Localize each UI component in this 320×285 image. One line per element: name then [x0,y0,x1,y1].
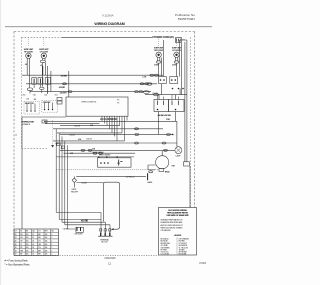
splice on wire [143,91,149,94]
svg-text:5995575481: 5995575481 [178,17,195,21]
svg-text:12: 12 [32,234,34,236]
svg-text:NC NONE: NC NONE [179,254,188,256]
svg-text:#10 BK: #10 BK [63,228,69,230]
svg-text:#16 OR: #16 OR [74,125,81,127]
svg-text:18: 18 [32,250,34,252]
svg-text:YL: YL [20,244,22,246]
svg-text:USE WIRE OF SAME SIZE: USE WIRE OF SAME SIZE [166,214,189,217]
bus wire N1 [22,74,163,76]
svg-text:105: 105 [45,244,48,246]
selector switch box [24,101,40,114]
svg-text:#16 R: #16 R [154,65,159,67]
arrow into terminal [111,228,114,230]
bake element wire [74,173,153,184]
bus wire N3 [30,91,151,93]
svg-text:BLOCK: BLOCK [102,242,109,244]
outer dashed frame [14,32,195,256]
surface unit SU4 label [172,48,182,52]
svg-text:GROUND: GROUND [74,233,83,235]
svg-text:RECEPT: RECEPT [71,192,79,194]
bottom dashed border [14,254,197,256]
receptacle wire label [77,183,104,185]
svg-text:105: 105 [45,234,48,236]
svg-text:11: 11 [108,262,111,266]
surface unit SU3 [156,52,161,57]
latch switch box [98,158,132,167]
thermostat label [21,120,47,126]
svg-text:105: 105 [26,241,29,243]
svg-text:REPLACEMENT PARTS: REPLACEMENT PARTS [167,212,188,215]
bus wire N2 [26,83,157,85]
svg-text:LEGEND: LEGEND [174,235,182,237]
oven switch box [42,100,58,112]
wire motor left [148,165,156,173]
svg-text:105: 105 [32,231,35,233]
console link wire [22,116,66,118]
ladder wire W7 [53,141,125,145]
svg-text:18: 18 [32,247,34,249]
feed to oven light [159,112,177,147]
surface unit SU3 label [154,48,164,52]
console top wire [62,36,152,38]
svg-text:LAMP: LAMP [176,154,182,157]
svg-text:#12 RD ==: #12 RD == [126,177,136,179]
surface unit SU2 label [39,49,49,53]
svg-text:16: 16 [15,244,17,246]
left drop bundle [56,129,67,229]
svg-text:18: 18 [20,231,22,233]
code legend box [159,208,197,256]
svg-text:WIRING DIAGRAM: WIRING DIAGRAM [94,22,124,26]
feed stubs from console top [28,37,176,46]
surface unit SU2 [41,53,46,58]
switch contact S2b [45,78,50,85]
ladder wire W2 [47,122,100,124]
svg-text:A1 CLOCK/EOC: A1 CLOCK/EOC [100,117,118,121]
bundle clip B [61,146,64,149]
limiter contact SU3 [156,61,161,63]
page edge shade [0,0,1,285]
svg-text:10: 10 [15,254,17,256]
connector drop wire [50,71,52,92]
wires SU1 SU2 down [27,58,47,94]
infinite switch S2 [38,78,43,85]
splice oval right N2 [147,83,152,85]
wire L1 right side [181,40,187,162]
svg-text:#12 BK: #12 BK [81,183,87,185]
svg-text:HIGHER AS SPECIFIED AND: HIGHER AS SPECIFIED AND [161,221,184,224]
surface unit SU1 label [24,49,34,53]
connector P6 [57,101,62,104]
svg-text:SWITCH ASM: SWITCH ASM [99,153,111,156]
oven control board U1 [66,97,128,116]
svg-text:RR 1500W: RR 1500W [154,50,163,52]
drop wire to control [68,71,70,97]
limiter contact SU4 [174,61,179,63]
ladder wire W10 [64,152,136,154]
bundle clip A [57,143,60,146]
label row blobs [22,95,58,102]
ladder wire W5 [57,133,122,136]
svg-text:#10 WH: #10 WH [60,92,67,94]
relay pin stubs [158,95,179,100]
svg-text:P3: P3 [117,100,119,102]
svg-text:BAKE: BAKE [148,181,154,184]
svg-text:#14 RD: #14 RD [152,93,159,95]
svg-text:K115MA: K115MA [102,14,113,18]
svg-text:OVEN CONTROL: OVEN CONTROL [81,101,97,103]
svg-text:#16 GY: #16 GY [86,139,93,141]
broil element wire [56,169,170,174]
wire color table [14,229,59,256]
svg-text:P4: P4 [117,103,119,105]
svg-text:K003: K003 [199,261,206,265]
oven cavity loop [104,182,120,229]
ladder wire W9 [60,149,175,151]
svg-text:16: 16 [32,244,34,246]
ladder wire W8 [57,142,177,144]
surface unit SU1 [26,53,31,58]
svg-text:#10 BK: #10 BK [61,75,68,77]
infinite switch S3 [159,77,167,84]
svg-text:# POWER CORD (2C): # POWER CORD (2C) [152,36,174,39]
junction dots under switches [172,88,184,90]
svg-text:WIRE 105C MIN SZ #18 AWG: WIRE 105C MIN SZ #18 AWG [161,226,184,229]
splice oval A1 [27,88,33,91]
oven light DS1 [175,147,182,158]
svg-text:#36 BK #36 WH: #36 BK #36 WH [158,115,172,117]
svg-text:105: 105 [45,250,48,252]
relay box K1 [154,100,169,112]
ladder wire W3 [60,125,120,127]
surface unit SU4 [174,52,179,57]
sense line arrowhead [51,145,54,148]
svg-text:105: 105 [26,247,29,249]
svg-text:105: 105 [45,241,48,243]
svg-text:105: 105 [26,244,29,246]
dashed sense line [52,120,54,146]
svg-text:OR LARGER: OR LARGER [161,229,172,232]
svg-text:18: 18 [15,247,17,249]
table cell text [15,231,54,256]
convection motor B1 [156,151,176,169]
wires SU3 SU4 down [157,40,179,77]
ground connector G1 [74,227,83,235]
svg-text:105: 105 [45,254,48,256]
title rule [5,26,212,28]
svg-text:105: 105 [45,247,48,249]
svg-text:105: 105 [26,254,29,256]
svg-text:16: 16 [15,241,17,243]
relay box K2 [169,100,185,112]
switch stub wires [30,84,48,93]
svg-text:105: 105 [51,231,54,233]
svg-text:105: 105 [26,234,29,236]
svg-text:OVEN SW: OVEN SW [43,102,51,104]
svg-text:105: 105 [26,237,29,239]
nested corner wires to terminal [56,213,110,233]
svg-text:SIZE AND TEMP RATING OR: SIZE AND TEMP RATING OR [161,219,184,222]
svg-text:SURFACE: SURFACE [22,123,31,126]
inner console dashed border [22,37,191,207]
svg-text:219C2915: 219C2915 [104,256,116,260]
wire receptacle symbol [71,178,79,194]
ladder wire W1 [46,120,177,122]
svg-text:CT COUNT: CT COUNT [161,254,171,256]
svg-text:105: 105 [45,237,48,239]
svg-text:#10 RD: #10 RD [59,87,66,89]
svg-text:12: 12 [15,234,17,236]
svg-text:* = Non Illustrated Parts: * = Non Illustrated Parts [5,262,31,266]
left feed wire to table [21,117,23,229]
svg-text:10: 10 [32,254,34,256]
connector P5 [57,98,62,101]
svg-text:14: 14 [32,237,34,239]
terminal block TB1 [98,229,112,244]
svg-text:14: 14 [15,237,17,239]
infinite switch S1 [32,78,37,85]
limiter contact SU2 [40,60,45,63]
right feed connector [184,162,191,208]
svg-text:SELECTOR: SELECTOR [25,103,34,105]
svg-text:#10 RD: #10 RD [81,219,88,222]
svg-text:16: 16 [32,241,34,243]
ladder wire W6 [60,133,174,140]
ladder wire W4 [53,128,163,130]
infinite switch S4 [170,77,178,84]
svg-text:105: 105 [26,250,29,252]
splice oval B1 [40,87,45,89]
svg-text:AS FOLLOWS USE 600 VOLT: AS FOLLOWS USE 600 VOLT [161,224,184,227]
harness drop bundle [102,116,127,141]
wires above relays [145,84,187,100]
extra wire tags on ladder [70,125,96,155]
power cord connector P1 [176,38,182,43]
wire through latch row [56,156,134,157]
svg-text:18: 18 [15,250,17,252]
thermostat contacts [44,121,46,123]
svg-text:# = Func tioning Parts: # = Func tioning Parts [5,259,29,263]
